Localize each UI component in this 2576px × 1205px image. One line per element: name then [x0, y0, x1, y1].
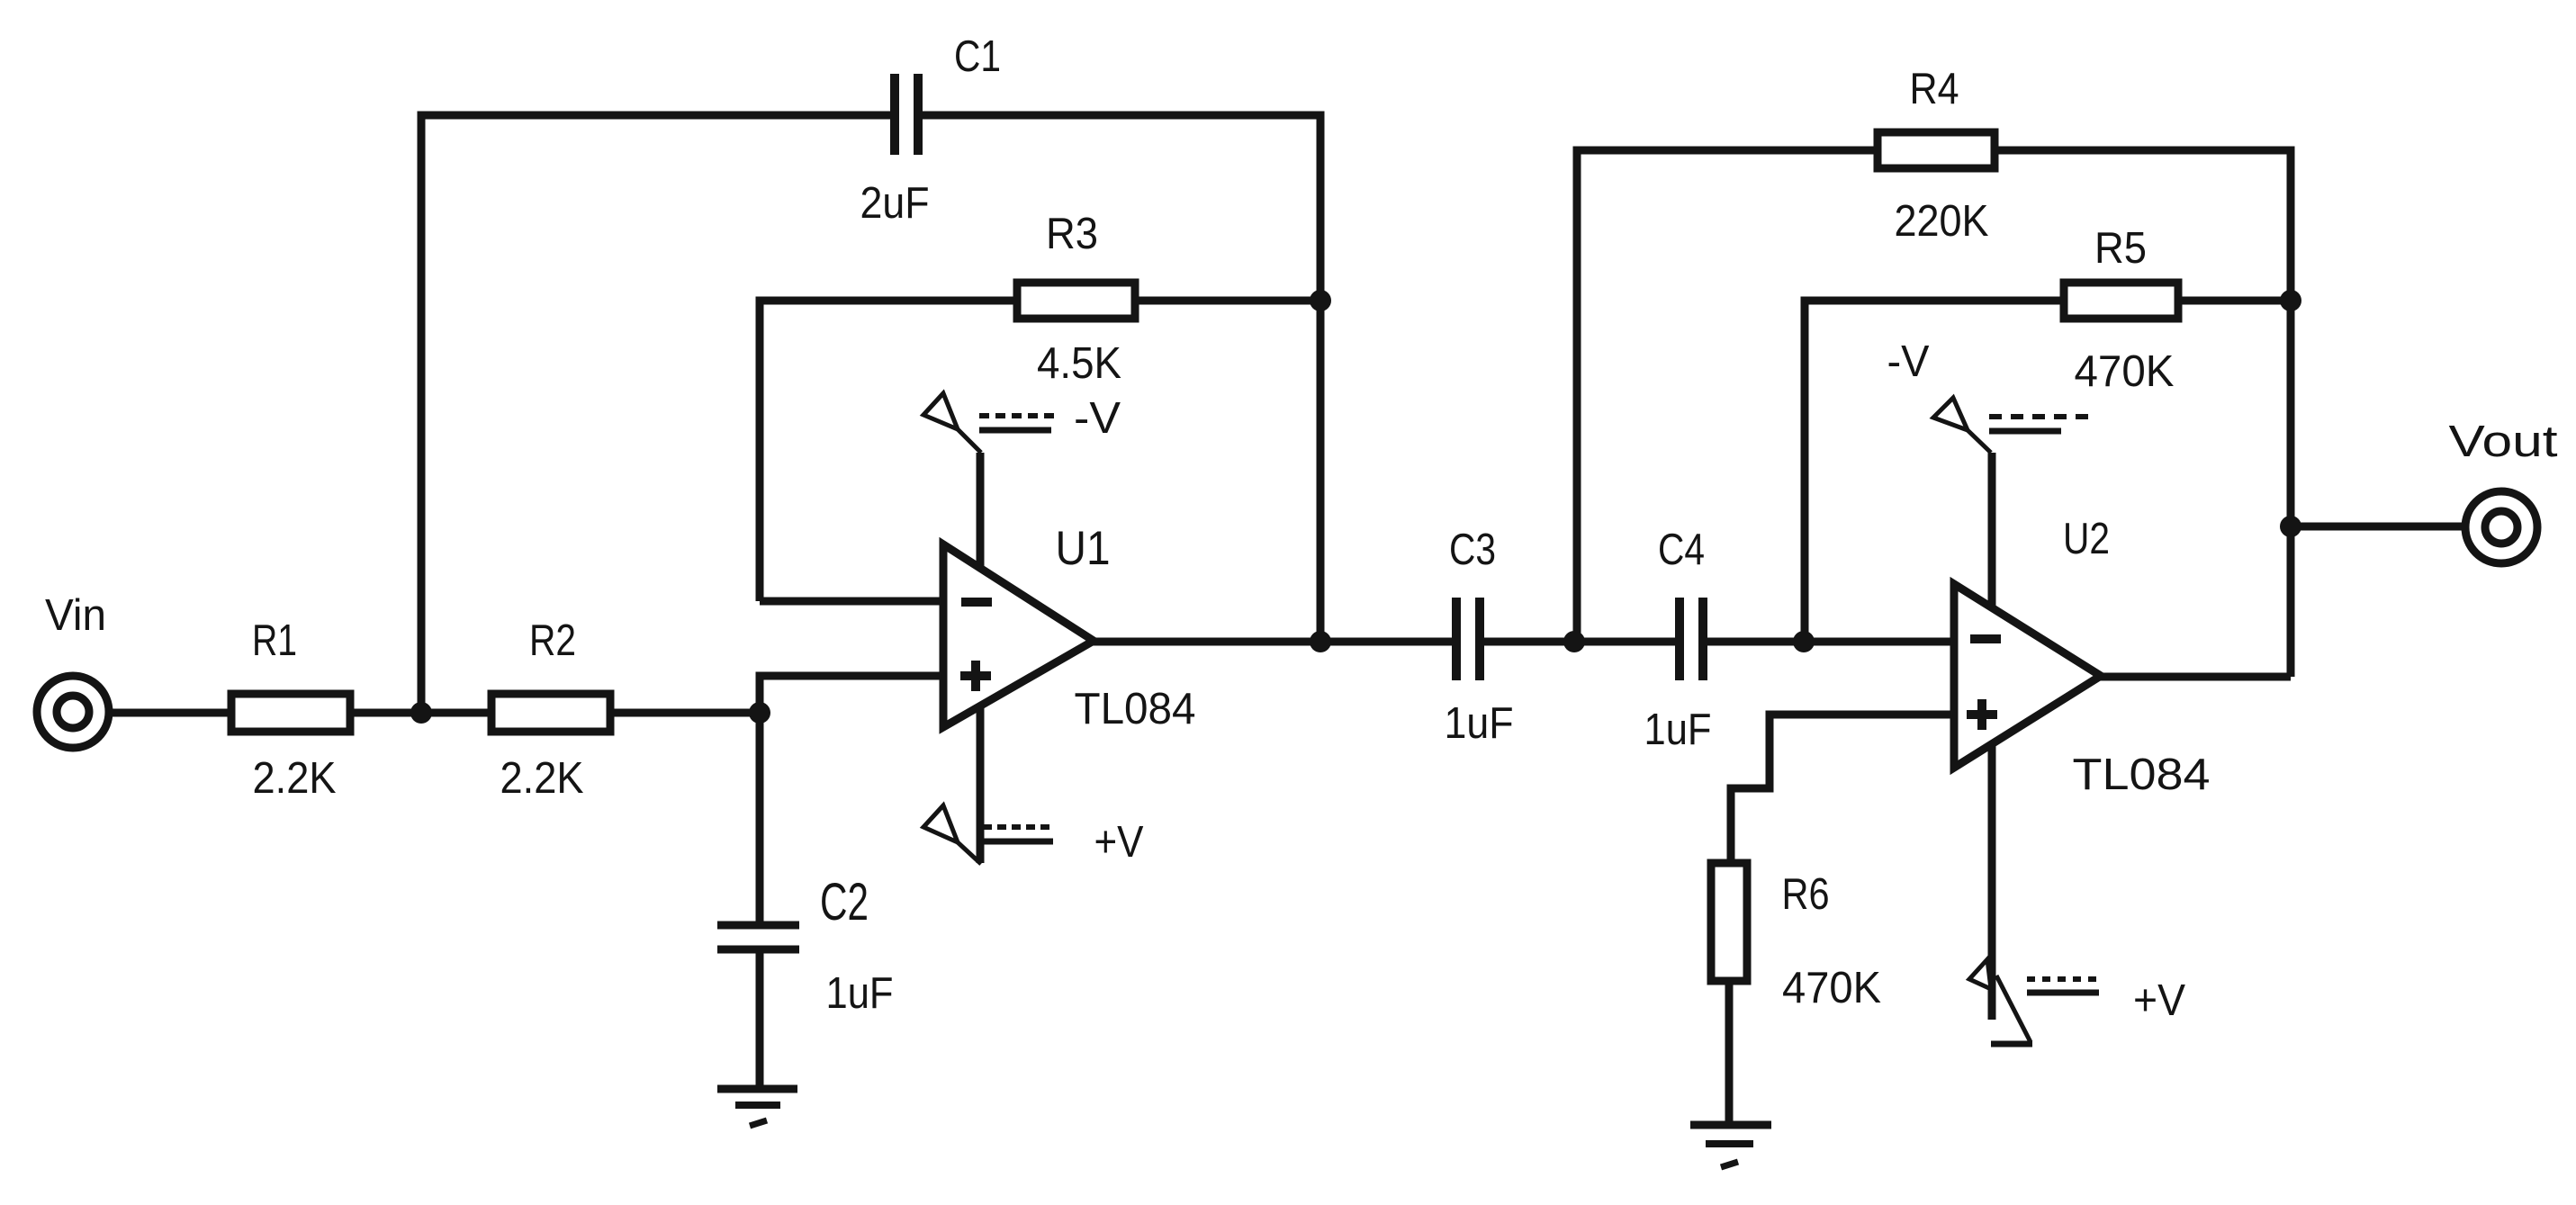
- wire R2 to node B: [610, 709, 760, 717]
- wire minus input up to R3 row: [760, 301, 1018, 601]
- power flag -V of U2: [1933, 398, 2097, 453]
- svg-text:4.5K: 4.5K: [1037, 339, 1121, 388]
- wire R6 to ground: [1725, 981, 1734, 1125]
- svg-text:R5: R5: [2094, 224, 2147, 273]
- ground symbol at C2: [717, 1089, 797, 1126]
- wire node B to U1 plus input: [760, 676, 943, 713]
- U2 inverting pin marker: [1970, 634, 2001, 643]
- svg-text:R1: R1: [252, 616, 297, 665]
- svg-text:TL084: TL084: [1075, 685, 1196, 733]
- node E junction dot (C3/C4/R4 branch): [1563, 631, 1585, 652]
- svg-text:1uF: 1uF: [826, 969, 894, 1018]
- U2 non-inverting pin marker: [1967, 699, 1997, 730]
- svg-text:C2: C2: [820, 873, 869, 931]
- node B junction dot (R2/U1+ /C2): [749, 702, 770, 724]
- wire R5 to node G: [2178, 297, 2291, 305]
- svg-text:C1: C1: [954, 32, 1001, 81]
- node A junction dot (R1/R2/C1 branch): [410, 702, 432, 724]
- input terminal Vin: [37, 676, 109, 748]
- power flag +V of U1: [923, 805, 1055, 864]
- capacitor C1: [895, 74, 918, 155]
- wire R4 row right and right vertical down: [1995, 150, 2291, 677]
- wire U1 minus input: [760, 598, 943, 606]
- wire node A to R2: [421, 709, 491, 717]
- U1 positive supply stub: [977, 706, 985, 863]
- wire node F to U2 minus input: [1804, 638, 1954, 646]
- wire R3 to node C: [1135, 297, 1320, 305]
- node C junction dot (R3/C1 vertical): [1310, 290, 1331, 311]
- svg-text:R4: R4: [1910, 65, 1959, 113]
- wire node A up to C1 row: [421, 115, 891, 713]
- node H junction dot (Vout tap): [2280, 516, 2301, 537]
- svg-text:-V: -V: [1887, 337, 1930, 386]
- svg-text:2.2K: 2.2K: [253, 754, 337, 803]
- capacitor C4: [1680, 598, 1703, 680]
- svg-text:Vout: Vout: [2449, 418, 2558, 466]
- svg-text:1uF: 1uF: [1644, 706, 1712, 754]
- svg-text:+V: +V: [2133, 976, 2185, 1025]
- power flag -V of U1: [923, 393, 1055, 453]
- wire C2 to ground: [756, 949, 764, 1089]
- node F junction dot (C4/R5/U2-): [1793, 631, 1815, 652]
- node D junction dot (U1 out): [1310, 631, 1331, 652]
- op-amp U1: [943, 544, 1094, 727]
- wire C3 to node E: [1483, 638, 1574, 646]
- wire Vout row: [2291, 523, 2465, 531]
- svg-text:U2: U2: [2063, 515, 2110, 563]
- wire node B down to C2: [756, 713, 764, 925]
- svg-text:R3: R3: [1046, 210, 1098, 258]
- resistor R2: [491, 694, 610, 732]
- wire R1 to node A: [350, 709, 421, 717]
- wire C4 to node F: [1707, 638, 1804, 646]
- svg-text:470K: 470K: [2075, 347, 2175, 396]
- resistor R6: [1711, 863, 1747, 981]
- wire U2 plus input with jog to R6: [1731, 715, 1954, 863]
- svg-text:C3: C3: [1449, 526, 1496, 574]
- svg-text:470K: 470K: [1782, 964, 1881, 1012]
- U1 negative supply stub: [977, 453, 985, 569]
- svg-text:C4: C4: [1658, 526, 1705, 574]
- svg-text:U1: U1: [1056, 522, 1111, 575]
- wire node E up to R4 row: [1577, 150, 1878, 642]
- svg-text:R6: R6: [1782, 870, 1830, 919]
- svg-text:220K: 220K: [1895, 197, 1989, 246]
- wire U2 output: [2097, 673, 2291, 681]
- wire Vin to R1: [111, 709, 233, 717]
- resistor R1: [231, 694, 350, 732]
- svg-text:2.2K: 2.2K: [500, 754, 584, 803]
- svg-text:-V: -V: [1074, 394, 1121, 443]
- resistor R4: [1878, 132, 1995, 168]
- wire node F up to R5 row: [1805, 301, 2064, 642]
- output terminal Vout: [2465, 491, 2537, 563]
- wire C1 row right and down to node D: [922, 115, 1320, 642]
- resistor R3: [1017, 283, 1135, 319]
- wire node E to C4: [1574, 638, 1676, 646]
- wire node D to C3: [1320, 638, 1453, 646]
- svg-text:2uF: 2uF: [860, 179, 930, 228]
- resistor R5: [2064, 283, 2178, 319]
- power flag +V of U2: [1969, 959, 2099, 1044]
- node G junction dot (R5/right vertical): [2280, 290, 2301, 311]
- svg-text:+V: +V: [1094, 818, 1144, 867]
- svg-text:R2: R2: [529, 616, 576, 665]
- svg-text:Vin: Vin: [45, 591, 106, 640]
- U2 positive supply stub: [1988, 744, 1996, 1020]
- wire U1 output: [1090, 638, 1320, 646]
- capacitor C3: [1456, 598, 1480, 680]
- ground symbol at R6: [1690, 1125, 1771, 1167]
- capacitor C2: [717, 925, 799, 949]
- svg-text:1uF: 1uF: [1445, 699, 1514, 748]
- svg-text:TL084: TL084: [2073, 751, 2211, 799]
- U2 negative supply stub: [1988, 453, 1996, 608]
- U1 non-inverting pin marker: [960, 661, 991, 691]
- U1 inverting pin marker: [961, 598, 992, 607]
- op-amp U2: [1954, 584, 2101, 768]
